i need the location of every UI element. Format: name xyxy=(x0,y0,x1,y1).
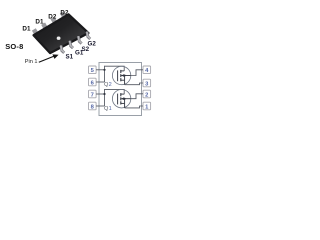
label D1 (pin 7) xyxy=(35,19,44,26)
label Q1 xyxy=(104,106,112,112)
pin 5 lead (back row D2) xyxy=(60,11,66,17)
pin box 7 xyxy=(89,90,97,98)
svg-text:1: 1 xyxy=(109,106,112,112)
label S1 (pin 1) xyxy=(66,53,74,60)
wire pin6 to D2 bus xyxy=(96,81,104,83)
wire D1 bus to Q1 drain xyxy=(105,89,125,94)
label D2 (pin 6) xyxy=(48,14,57,21)
label G1 (pin 2) xyxy=(75,49,84,56)
wire D2 bus to Q2 drain xyxy=(105,66,125,71)
pin box 8 xyxy=(89,102,97,110)
label Pin 1 xyxy=(25,59,38,65)
pin box 5 xyxy=(89,66,97,74)
pin 4 lead (front G2) xyxy=(87,32,90,39)
svg-text:2: 2 xyxy=(109,82,112,88)
svg-text:7: 7 xyxy=(91,92,94,98)
pin box 1 xyxy=(143,102,151,110)
pin 2 lead (front G1) xyxy=(70,41,73,48)
schematic outer box xyxy=(99,63,142,116)
pin 8 lead (back row D1) xyxy=(32,28,38,34)
svg-text:G2: G2 xyxy=(88,41,97,48)
wire Q2 source to pin3 xyxy=(125,83,143,85)
svg-text:S1: S1 xyxy=(66,53,74,60)
wire Q1 gate to pin2 xyxy=(131,94,143,99)
label Q2 xyxy=(104,82,112,88)
wire Q2 gate to pin4 xyxy=(131,70,143,76)
pin box 6 xyxy=(89,78,97,86)
transistor Q1 xyxy=(112,90,130,108)
wire pin7 to D1 bus xyxy=(96,93,104,95)
junction node D1 bus xyxy=(103,93,105,95)
SO-8 package body xyxy=(34,14,89,53)
junction node D2 bus xyxy=(103,69,105,71)
svg-text:D1: D1 xyxy=(22,26,31,33)
transistor Q2 xyxy=(112,66,130,84)
pin 6 lead (back row D2) xyxy=(51,17,57,23)
svg-text:D2: D2 xyxy=(48,14,57,21)
svg-text:D1: D1 xyxy=(35,19,44,26)
wire pin8 to D1 bus xyxy=(96,105,104,107)
label S2 (pin 3) xyxy=(82,46,90,53)
pin box 3 xyxy=(143,79,151,87)
svg-text:SO-8: SO-8 xyxy=(5,42,23,51)
Pin 1 pointer arrow xyxy=(39,54,59,62)
pin box 2 xyxy=(143,90,151,98)
D2 bus vertical wire xyxy=(104,66,106,82)
pin 1 marker dot xyxy=(57,37,61,40)
label SO-8 xyxy=(5,42,23,51)
D1 bus vertical wire xyxy=(104,89,106,106)
wire Q1 source to pin1 xyxy=(125,106,143,108)
label D1 (pin 8) xyxy=(22,26,31,33)
svg-text:2: 2 xyxy=(145,92,148,98)
pin 7 lead (back row D1) xyxy=(41,23,47,29)
wire pin5 to D2 bus xyxy=(96,69,104,71)
pin box 4 xyxy=(143,66,151,74)
label D2 (pin 5) xyxy=(60,9,69,16)
label G2 (pin 4) xyxy=(88,41,97,48)
pin 3 lead (front S2) xyxy=(78,36,81,43)
svg-text:Pin 1: Pin 1 xyxy=(25,59,38,65)
pin 1 lead (front S1) xyxy=(61,45,64,52)
svg-text:D2: D2 xyxy=(60,9,69,16)
